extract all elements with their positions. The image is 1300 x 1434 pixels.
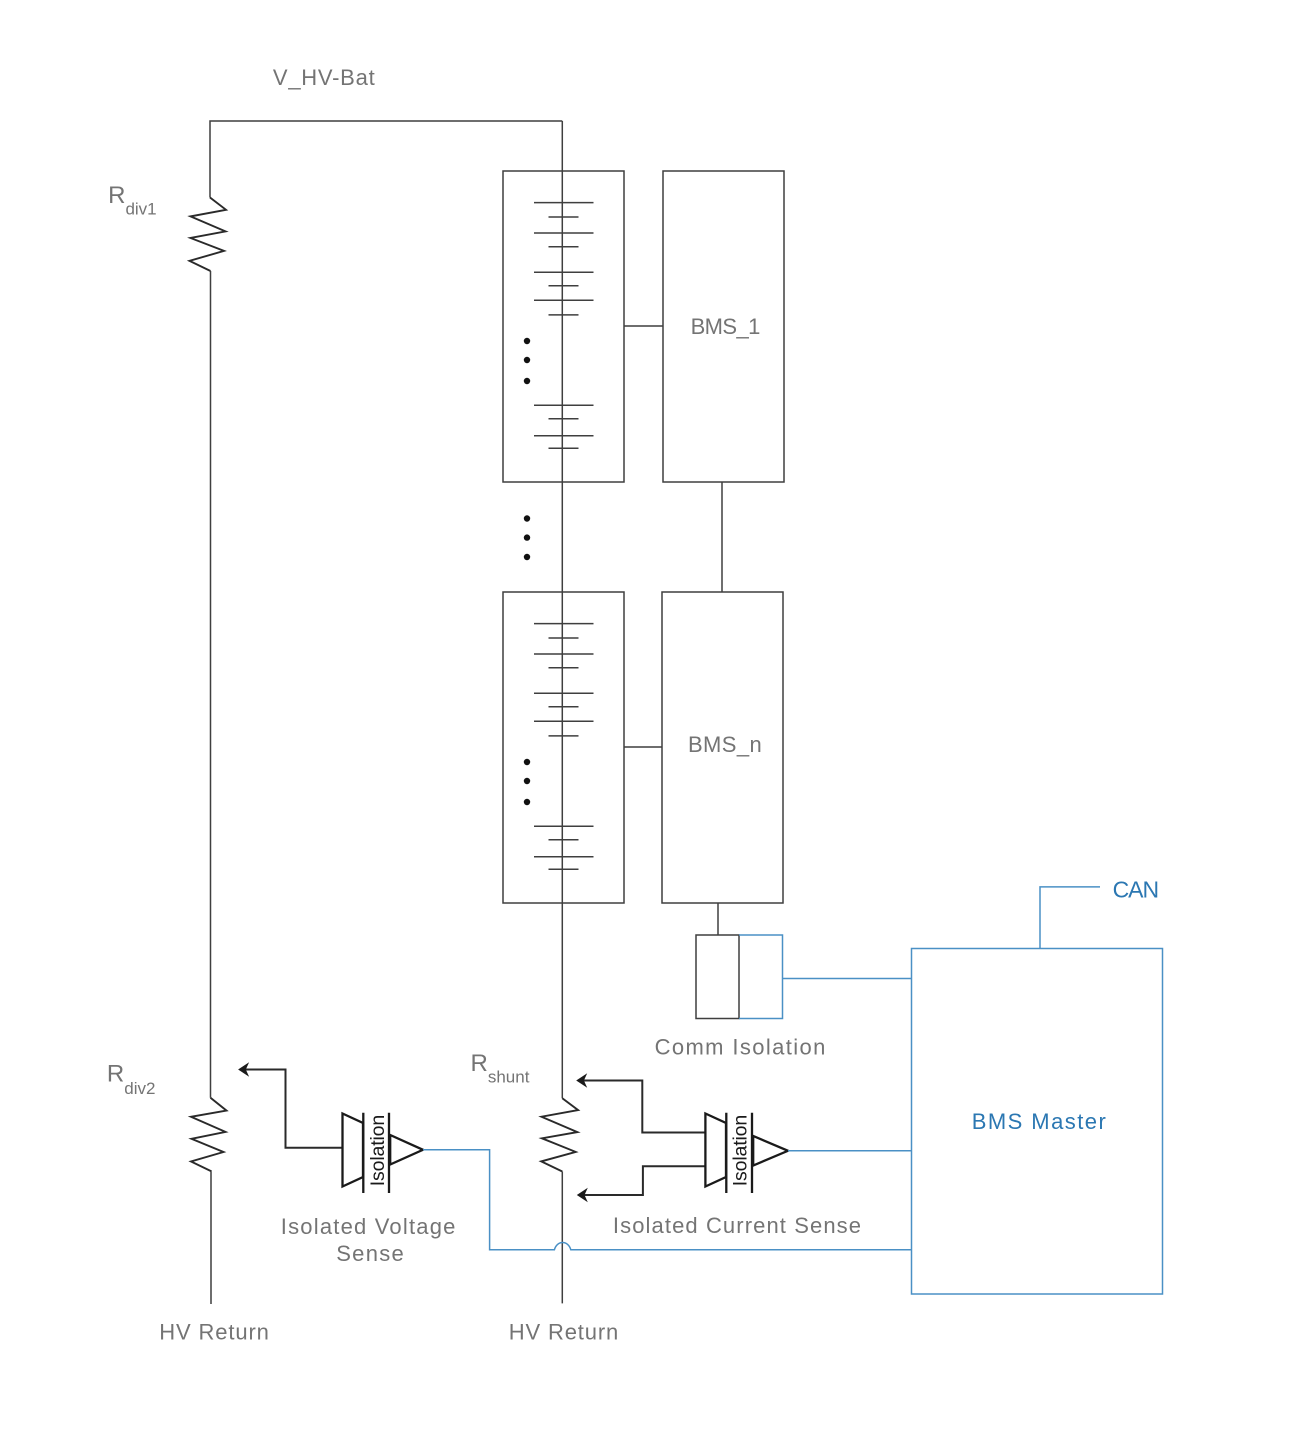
resistor Rshunt: [541, 1098, 578, 1171]
battery stack box 1: [503, 171, 624, 482]
svg-text:Sense: Sense: [336, 1241, 404, 1266]
wire comm isolation to BMS master (blue): [783, 978, 912, 980]
BMS_n box: [662, 592, 783, 903]
wire Rdiv2 tap with arrow: [245, 1070, 342, 1148]
BMS Master box: [912, 949, 1163, 1295]
battery stack box 2: [503, 592, 624, 903]
svg-text:Isolation: Isolation: [729, 1115, 751, 1187]
svg-text:Isolated Voltage: Isolated Voltage: [281, 1214, 456, 1239]
ellipsis dots between stacks: [524, 515, 530, 560]
wire voltage sense output (blue) with hop over middle wire: [423, 1150, 912, 1250]
wire stack2 to BMS_n: [624, 746, 662, 748]
battery cells stack 2: [534, 624, 594, 870]
wire top rail from Rdiv1 to battery stack: [210, 121, 562, 198]
svg-text:HV Return: HV Return: [509, 1320, 619, 1345]
wire current sense output (blue): [788, 1150, 912, 1152]
wire Rshunt bottom tap with arrow: [584, 1166, 705, 1195]
wire stack1 to BMS_1: [624, 325, 663, 327]
stack 2 ellipsis dots: [524, 759, 530, 805]
isolation amp U2 (current sense): [705, 1113, 788, 1193]
wire middle vertical battery string: [561, 121, 563, 1098]
arrowhead at Rshunt bottom tap: [577, 1188, 588, 1203]
BMS_1 box: [663, 171, 784, 482]
isolation amp U1 (voltage sense): [343, 1113, 424, 1193]
svg-text:HV Return: HV Return: [159, 1320, 269, 1345]
wire BMS_n to comm isolation: [717, 903, 719, 935]
svg-text:Isolation: Isolation: [367, 1115, 389, 1187]
wire CAN stub: [1040, 887, 1100, 949]
wire Rshunt top tap with arrow: [584, 1081, 706, 1133]
svg-text:BMS_1: BMS_1: [691, 314, 761, 339]
resistor Rdiv2: [191, 1098, 227, 1172]
svg-text:Comm Isolation: Comm Isolation: [655, 1035, 826, 1060]
svg-text:CAN: CAN: [1113, 877, 1160, 903]
svg-text:V_HV-Bat: V_HV-Bat: [273, 65, 375, 90]
svg-text:BMS Master: BMS Master: [972, 1109, 1106, 1134]
wire middle vertical below Rshunt: [561, 1172, 563, 1304]
comm isolation right half (LV side, blue): [739, 935, 783, 1019]
battery cells stack 1: [534, 203, 594, 449]
svg-text:Isolated Current Sense: Isolated Current Sense: [613, 1213, 861, 1238]
comm isolation left half (HV side): [696, 935, 739, 1019]
stack 1 ellipsis dots: [524, 338, 530, 384]
arrowhead at Rdiv2 tap: [238, 1062, 249, 1077]
resistor Rdiv1: [190, 198, 227, 272]
wire left vertical from Rdiv1 to Rdiv2: [210, 271, 212, 1098]
wire left vertical below Rdiv2: [210, 1171, 212, 1304]
svg-text:BMS_n: BMS_n: [688, 732, 762, 757]
arrowhead at Rshunt top tap: [576, 1073, 587, 1088]
wire BMS_1 to BMS_n: [721, 482, 723, 592]
